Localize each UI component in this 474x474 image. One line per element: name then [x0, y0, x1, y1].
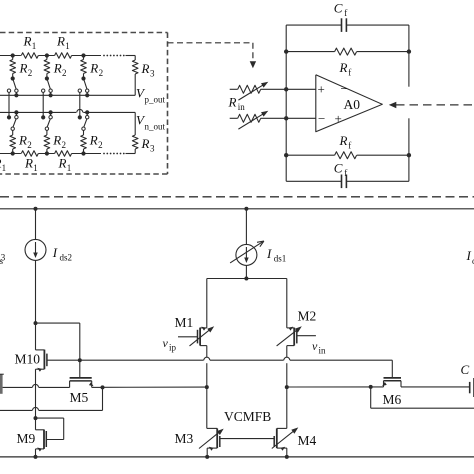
switch top col3	[81, 76, 89, 97]
wire	[38, 55, 54, 57]
resistor R2 (top col1)	[10, 56, 16, 77]
resistor Rin (bottom, variable)	[230, 111, 316, 129]
resistor R2 (bottom col3)	[81, 130, 87, 153]
svg-text:R: R	[228, 95, 237, 110]
resistor R3 (bottom)	[132, 112, 138, 153]
resistor R3 (top)	[132, 56, 138, 96]
label Ids (cut at right edge)	[466, 248, 474, 266]
label R2	[52, 133, 66, 151]
dashed connector box to Rin	[168, 43, 257, 69]
svg-text:M3: M3	[175, 431, 194, 446]
bypass wire col3	[78, 89, 82, 120]
label R1	[56, 34, 70, 52]
resistor R2 (top col3)	[81, 56, 87, 77]
svg-text:R: R	[56, 34, 65, 49]
label M2	[298, 309, 317, 324]
svg-text:p_out: p_out	[145, 95, 166, 105]
switch top col1	[11, 76, 19, 97]
label Rin	[228, 95, 246, 113]
svg-text:1: 1	[67, 163, 72, 173]
wire	[126, 55, 136, 57]
wire opamp left vertical	[285, 25, 287, 181]
svg-text:M10: M10	[15, 352, 41, 367]
resistor R1 (bottom left)	[21, 151, 38, 157]
label R1	[24, 156, 38, 174]
transistor M10	[36, 323, 80, 418]
label M10	[15, 352, 41, 367]
wire bias to left edge	[3, 384, 70, 387]
label + input	[318, 82, 325, 97]
svg-text:C: C	[461, 362, 470, 377]
wire diff pair top	[207, 279, 287, 328]
label Vn_out	[136, 113, 166, 132]
label Rf	[339, 133, 352, 151]
label R3	[141, 136, 156, 154]
transistor M3 (variable)	[199, 428, 274, 457]
svg-text:I: I	[52, 245, 58, 260]
svg-text:R: R	[89, 133, 98, 148]
ellipsis continuation (top wire)	[103, 55, 125, 57]
junction M5 source	[101, 385, 105, 389]
svg-text:R: R	[23, 34, 32, 49]
resistor R2 (bottom col2)	[44, 130, 50, 153]
svg-text:f: f	[348, 141, 351, 151]
junction M1 source node	[205, 385, 209, 389]
bypass wire col2	[41, 89, 45, 120]
dashed arrow into opamp output	[389, 102, 474, 109]
node bottom col3	[81, 151, 85, 155]
gate element (cut at left edge)	[0, 374, 4, 394]
wire Ids2 to gate node	[36, 323, 80, 360]
wire	[126, 153, 136, 155]
label R2	[19, 61, 33, 79]
label vin	[312, 339, 326, 356]
label R2	[53, 61, 67, 79]
wire VSS rail	[0, 456, 474, 458]
svg-text:−: −	[341, 81, 348, 96]
svg-text:in: in	[238, 102, 246, 112]
ellipsis continuation (bottom wire)	[103, 153, 125, 155]
transistor M2 (variable)	[277, 326, 316, 387]
svg-text:M1: M1	[175, 315, 194, 330]
svg-text:+: +	[318, 82, 325, 97]
switch bottom col1	[11, 110, 19, 130]
junction	[285, 455, 289, 459]
label M1	[175, 315, 194, 330]
svg-text:R: R	[339, 133, 348, 148]
svg-text:M9: M9	[17, 431, 36, 446]
wire M9 gate loop	[36, 418, 64, 439]
label Ids1	[266, 246, 286, 264]
svg-text:VCMFB: VCMFB	[224, 409, 271, 424]
transistor M9	[36, 418, 47, 457]
wire opamp right vertical bottom	[408, 118, 410, 181]
wire VDD rail	[0, 208, 474, 210]
svg-text:R: R	[339, 60, 348, 75]
label R1 (cut at left edge)	[0, 156, 6, 174]
switch bottom col2	[45, 110, 53, 130]
junction	[34, 207, 38, 211]
node top col1	[11, 53, 15, 57]
svg-text:2: 2	[28, 68, 33, 78]
svg-text:1: 1	[2, 163, 7, 173]
svg-text:R: R	[19, 61, 28, 76]
svg-text:3: 3	[150, 144, 155, 154]
wire bottom ladder	[0, 153, 21, 155]
capacitor C_L (cut at right edge)	[470, 378, 474, 397]
label - input	[318, 111, 325, 126]
svg-text:n_out: n_out	[145, 122, 166, 132]
svg-text:R: R	[141, 136, 150, 151]
transistor M5	[70, 360, 103, 387]
bypass wire col1	[7, 89, 11, 120]
resistor R1 (bottom right)	[55, 151, 72, 157]
label Ids3 (cut at left edge)	[0, 249, 6, 267]
wire2 loop to left edge	[0, 387, 103, 410]
svg-text:I: I	[466, 248, 472, 263]
label M6	[383, 392, 402, 407]
label R3	[141, 61, 156, 79]
svg-text:I: I	[266, 246, 272, 261]
op-amp A0	[316, 75, 383, 132]
junction	[284, 153, 411, 157]
wire M5 source to M1 source	[103, 386, 207, 388]
label Cf	[334, 161, 347, 179]
svg-text:3: 3	[150, 69, 155, 79]
svg-text:M2: M2	[298, 309, 317, 324]
junction	[284, 87, 288, 120]
label R2	[89, 133, 103, 151]
svg-text:2: 2	[27, 140, 32, 150]
resistor R1 (top right)	[55, 53, 72, 59]
label M5	[70, 390, 89, 405]
wire branch down to right edge	[371, 387, 474, 408]
current source Ids1 (variable)	[230, 209, 264, 279]
wire opamp right vertical top	[408, 25, 410, 87]
svg-text:1: 1	[65, 41, 70, 51]
svg-text:f: f	[348, 68, 351, 78]
switch bottom col3	[82, 110, 89, 130]
resistor R1 (top left)	[21, 53, 38, 59]
svg-text:R: R	[141, 61, 150, 76]
svg-text:+: +	[335, 111, 342, 126]
label vip	[163, 336, 177, 353]
svg-text:2: 2	[98, 140, 103, 150]
label Cf	[334, 1, 347, 19]
svg-text:C: C	[334, 1, 343, 16]
resistor Rf (top)	[286, 48, 409, 55]
wire M1 source to M3 drain	[206, 387, 208, 428]
label M4	[298, 433, 317, 448]
label Vp_out	[136, 86, 166, 105]
junction	[244, 207, 248, 211]
junction	[244, 277, 248, 281]
label + output bottom	[335, 111, 342, 126]
resistor R2 (top col2)	[44, 56, 50, 77]
junction	[34, 416, 38, 420]
wire bias gate line	[80, 357, 393, 378]
capacitor Cf (top)	[286, 18, 409, 32]
wire	[72, 153, 101, 155]
wire M2 source to M6	[287, 386, 384, 388]
junction gate node	[78, 358, 82, 362]
svg-text:A0: A0	[344, 97, 361, 112]
svg-text:2: 2	[99, 68, 104, 78]
node Vn_out rail	[0, 109, 135, 112]
svg-text:f: f	[344, 168, 347, 178]
label R1	[23, 34, 37, 52]
node top col3	[81, 53, 85, 57]
svg-text:−: −	[318, 111, 325, 126]
svg-text:M5: M5	[70, 390, 89, 405]
label R1	[58, 156, 72, 174]
resistor Rf (bottom)	[286, 152, 409, 159]
resistor R2 (bottom col1)	[10, 130, 16, 153]
label VCMFB	[224, 409, 271, 424]
wire top ladder	[0, 55, 21, 57]
node bottom col1	[11, 151, 15, 155]
dashed box of programmable resistor network	[0, 33, 168, 175]
node bottom col2	[45, 151, 49, 155]
svg-text:R: R	[89, 61, 98, 76]
svg-text:ds2: ds2	[60, 253, 73, 263]
svg-text:R: R	[53, 61, 62, 76]
svg-text:M6: M6	[383, 392, 402, 407]
capacitor Cf (bottom)	[286, 175, 409, 189]
svg-text:C: C	[334, 161, 343, 176]
svg-text:2: 2	[62, 68, 67, 78]
transistor M1 (variable)	[178, 326, 214, 387]
junction	[205, 455, 209, 459]
svg-text:ds1: ds1	[274, 254, 287, 264]
svg-text:R: R	[24, 156, 33, 171]
label R2	[89, 61, 103, 79]
node Vp_out rail	[0, 94, 135, 96]
switch top col2	[45, 76, 53, 97]
label Ids2	[52, 245, 72, 263]
label R2	[18, 133, 32, 151]
junction	[34, 321, 38, 325]
svg-text:v: v	[163, 336, 169, 350]
svg-text:in: in	[319, 346, 327, 356]
resistor Rin (top, variable)	[230, 82, 316, 100]
junction	[369, 385, 373, 389]
svg-text:R: R	[58, 156, 67, 171]
node top col2	[45, 53, 49, 57]
svg-text:R: R	[52, 133, 61, 148]
label A0	[344, 97, 361, 112]
junction	[34, 455, 38, 459]
svg-text:3: 3	[1, 253, 6, 263]
svg-text:2: 2	[62, 140, 67, 150]
label M9	[17, 431, 36, 446]
label Rf	[339, 60, 352, 78]
svg-text:ip: ip	[169, 343, 177, 353]
junction M2 source node	[285, 385, 289, 389]
dashed separator line	[0, 196, 474, 198]
transistor M6	[382, 378, 470, 387]
label C (load cap)	[461, 362, 470, 377]
label M3	[175, 431, 194, 446]
transistor M4 (variable)	[272, 427, 299, 457]
current source Ids2	[25, 209, 46, 323]
svg-text:1: 1	[32, 41, 37, 51]
wire M2 source to M4 drain	[286, 387, 288, 428]
svg-text:1: 1	[33, 163, 38, 173]
wire	[72, 55, 101, 57]
junction	[284, 49, 411, 53]
svg-text:R: R	[18, 133, 27, 148]
svg-text:v: v	[312, 339, 318, 353]
svg-text:f: f	[344, 8, 347, 18]
label - output top	[341, 81, 348, 96]
svg-text:M4: M4	[298, 433, 317, 448]
wire	[38, 153, 54, 155]
